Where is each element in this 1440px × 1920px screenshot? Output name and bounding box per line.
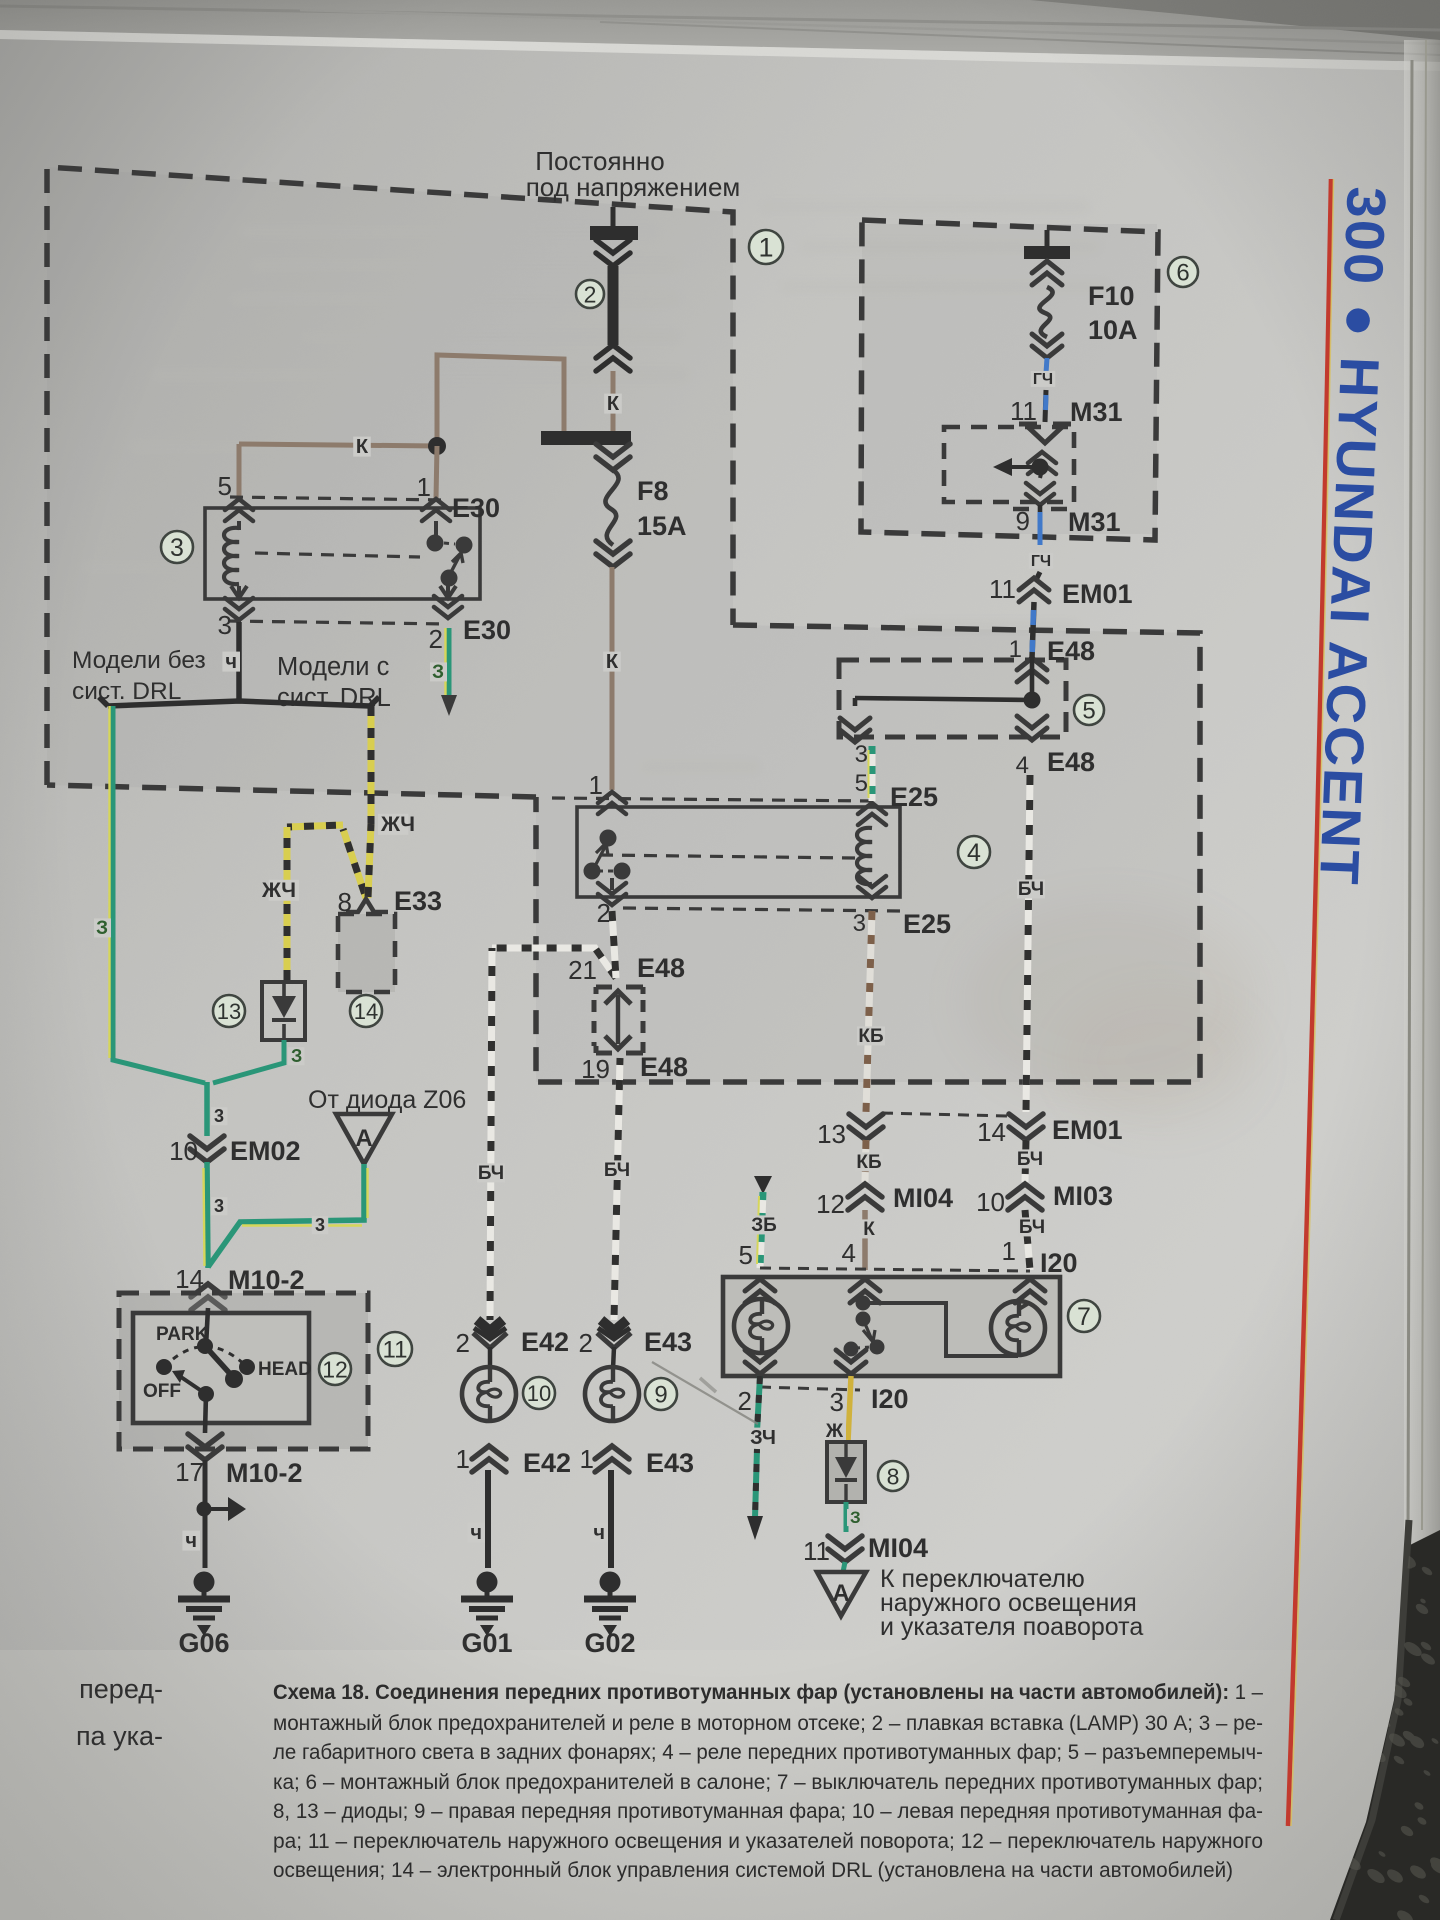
svg-text:5: 5 xyxy=(739,1240,753,1270)
node label circle 6 xyxy=(1168,257,1198,287)
svg-text:БЧ: БЧ xyxy=(604,1160,630,1181)
bleedthrough smudges xyxy=(80,200,1110,774)
wire ZCh from pin 2 xyxy=(757,1376,760,1432)
svg-text:7: 7 xyxy=(1077,1303,1091,1331)
svg-text:Е25: Е25 xyxy=(890,782,938,812)
svg-text:МI03: МI03 xyxy=(1053,1181,1113,1211)
svg-text:Е42: Е42 xyxy=(523,1448,571,1478)
ground G01 xyxy=(477,1572,498,1593)
svg-text:К: К xyxy=(356,436,369,458)
relay 3 box xyxy=(205,508,480,599)
jumper connector box 5 xyxy=(839,660,1066,737)
svg-text:Е48: Е48 xyxy=(1047,636,1095,666)
svg-text:Е25: Е25 xyxy=(903,909,951,939)
svg-text:Е48: Е48 xyxy=(637,953,685,983)
svg-text:6: 6 xyxy=(1176,260,1189,287)
svg-text:5: 5 xyxy=(1082,698,1095,725)
main feed wire xyxy=(608,266,619,345)
wire K (brown) from feed to junction bar xyxy=(611,371,616,431)
wire K loop to relay 3 xyxy=(437,355,564,446)
svg-text:К: К xyxy=(607,393,620,415)
svg-text:Модели с: Модели с xyxy=(277,653,390,681)
switch wire/contacts xyxy=(206,1308,208,1346)
svg-text:13: 13 xyxy=(817,1119,846,1149)
svg-text:М10-2: М10-2 xyxy=(226,1458,303,1488)
svg-text:БЧ: БЧ xyxy=(1019,1217,1045,1238)
fusible link feed in box 6 xyxy=(1045,230,1050,248)
connector MI04 pin 11 xyxy=(828,1536,862,1562)
node label circle 5 xyxy=(1074,695,1104,725)
connector E42 pin 1 xyxy=(472,1446,506,1472)
svg-text:па ука-: па ука- xyxy=(76,1721,163,1751)
svg-text:МI04: МI04 xyxy=(868,1533,928,1563)
svg-text:3: 3 xyxy=(214,1196,224,1216)
wire KB striped xyxy=(866,911,872,1112)
middle connector box outline xyxy=(536,625,1200,1082)
svg-text:3: 3 xyxy=(170,534,184,562)
fuse box 6 (cabin) xyxy=(862,224,1157,534)
svg-text:ч: ч xyxy=(470,1522,482,1544)
svg-text:З: З xyxy=(432,662,444,683)
svg-text:3: 3 xyxy=(853,910,866,937)
ground G02 xyxy=(600,1572,621,1593)
wire ch (black) from relay 3 pin 3 xyxy=(236,622,242,700)
svg-text:От диода Z06: От диода Z06 xyxy=(308,1086,466,1114)
relay 3 coil xyxy=(225,499,253,521)
junction bar xyxy=(541,431,631,445)
wire K to I20 pin4 xyxy=(862,1210,868,1270)
svg-text:14: 14 xyxy=(354,999,378,1024)
red margin rule xyxy=(1288,179,1331,1826)
svg-text:М31: М31 xyxy=(1070,397,1123,427)
svg-text:КБ: КБ xyxy=(856,1152,881,1173)
svg-text:сист. DRL: сист. DRL xyxy=(72,678,181,705)
relay 4 pin rows xyxy=(552,798,874,801)
svg-text:G06: G06 xyxy=(178,1628,229,1658)
wire to relay 3 pin 1 xyxy=(436,446,437,499)
svg-text:17: 17 xyxy=(175,1457,204,1487)
connector EM02 pin 10 xyxy=(190,1136,224,1162)
node label circle 14 xyxy=(350,995,382,1027)
svg-text:Схема 18. Соединения передних: Схема 18. Соединения передних противотум… xyxy=(273,1680,1263,1704)
switch contacts xyxy=(856,1296,871,1311)
svg-text:Е48: Е48 xyxy=(640,1052,688,1082)
svg-text:ЕМ02: ЕМ02 xyxy=(230,1136,301,1166)
top table edge band xyxy=(0,0,1440,62)
svg-text:3: 3 xyxy=(218,610,232,640)
svg-text:ЖЧ: ЖЧ xyxy=(380,813,415,836)
wire Z from triangle A xyxy=(208,1164,364,1267)
svg-text:ч: ч xyxy=(185,1530,197,1552)
svg-text:4: 4 xyxy=(967,839,981,867)
svg-text:14: 14 xyxy=(977,1117,1006,1147)
svg-text:КБ: КБ xyxy=(858,1026,883,1047)
svg-text:1: 1 xyxy=(758,233,773,263)
svg-text:4: 4 xyxy=(1016,752,1029,779)
svg-text:Е30: Е30 xyxy=(463,615,511,645)
svg-text:1: 1 xyxy=(580,1444,594,1474)
jumper wire with junction xyxy=(1030,658,1035,700)
svg-text:ЗБ: ЗБ xyxy=(751,1215,777,1236)
svg-text:освещения; 14 – электронный: освещения; 14 – электронный блок управле… xyxy=(273,1858,1233,1882)
node label circle 4 xyxy=(958,836,990,868)
node label circle 1 xyxy=(749,230,783,264)
connector E25 pin5 / jumper pin3 xyxy=(840,718,870,742)
svg-text:3: 3 xyxy=(214,1106,224,1126)
relay 3 switch contacts xyxy=(422,499,450,521)
svg-text:ле габаритного света в задних: ле габаритного света в задних фонарях; 4… xyxy=(273,1740,1263,1764)
diode 8 box xyxy=(827,1442,865,1502)
svg-text:БЧ: БЧ xyxy=(478,1163,504,1184)
connector EM01 pins 13/14 xyxy=(849,1114,883,1140)
wire ch to ground G06 xyxy=(203,1460,208,1568)
light switch inner box 12 xyxy=(133,1313,309,1423)
svg-text:F8: F8 xyxy=(637,476,669,506)
svg-text:Е30: Е30 xyxy=(452,493,500,523)
wire Z (green) from E30 pin 2 xyxy=(447,628,452,697)
svg-text:БЧ: БЧ xyxy=(1017,1149,1043,1170)
svg-text:11: 11 xyxy=(803,1536,830,1566)
svg-text:HEAD: HEAD xyxy=(258,1359,312,1380)
svg-text:А: А xyxy=(355,1125,372,1152)
fuse F8 15A xyxy=(596,444,630,470)
svg-text:2: 2 xyxy=(584,281,597,307)
fog lamp 9 xyxy=(585,1367,639,1421)
svg-text:под напряжением: под напряжением xyxy=(526,172,741,202)
svg-text:ГЧ: ГЧ xyxy=(1031,553,1051,570)
wire Z below diode 13 xyxy=(213,1040,284,1083)
fog lamp 10 xyxy=(462,1367,516,1421)
wire GCh striped to E48 xyxy=(1032,602,1034,658)
svg-text:G01: G01 xyxy=(461,1628,512,1658)
svg-text:3: 3 xyxy=(315,1215,325,1235)
wire Z (green/yellow) no-DRL branch xyxy=(113,706,205,1083)
junction node xyxy=(428,437,446,455)
svg-text:ЕМ01: ЕМ01 xyxy=(1052,1115,1123,1145)
wire ch to ground G02 xyxy=(608,1470,614,1568)
svg-text:5: 5 xyxy=(855,770,868,797)
svg-text:9: 9 xyxy=(654,1382,667,1409)
svg-text:OFF: OFF xyxy=(143,1381,181,1402)
svg-text:ЗЧ: ЗЧ xyxy=(750,1427,776,1449)
wire ZB with off-page arrow xyxy=(754,1176,772,1194)
DRL control unit box 14 xyxy=(338,914,395,992)
svg-text:Е43: Е43 xyxy=(644,1327,692,1357)
light switch outer box 11 xyxy=(119,1293,368,1449)
relay 4 pin 2 xyxy=(610,878,614,890)
lamp (left, illumination) xyxy=(734,1299,788,1353)
svg-text:11: 11 xyxy=(383,1337,408,1364)
svg-text:G02: G02 xyxy=(584,1628,635,1658)
right page fore-edge xyxy=(1404,40,1440,1920)
fuse F10 10A xyxy=(1032,261,1062,285)
svg-text:2: 2 xyxy=(579,1328,593,1358)
svg-text:21: 21 xyxy=(568,955,597,985)
connector E33 pin 8 xyxy=(346,899,388,912)
svg-text:1: 1 xyxy=(589,770,603,800)
svg-text:Е42: Е42 xyxy=(521,1327,569,1357)
off-page triangle A xyxy=(336,1114,392,1164)
svg-text:ра; 11 – переключатель наруж: ра; 11 – переключатель наружного освещен… xyxy=(273,1829,1263,1853)
wire K to relay 4 xyxy=(610,567,615,790)
svg-text:и указателя поаворота: и указателя поаворота xyxy=(880,1613,1143,1641)
svg-text:З: З xyxy=(291,1046,302,1066)
svg-text:11: 11 xyxy=(989,574,1016,604)
svg-text:1: 1 xyxy=(417,472,431,502)
connector M31 pin 9 xyxy=(1013,507,1067,512)
fusible link 2 (LAMP 30A) xyxy=(611,207,616,227)
photo scratch xyxy=(652,1362,758,1424)
wire BCh branch to E42 xyxy=(492,948,616,978)
svg-text:1: 1 xyxy=(1009,636,1022,663)
svg-text:5: 5 xyxy=(218,471,232,501)
I20 pin row top xyxy=(760,1268,1030,1271)
wire BCh from relay 4 pin 2 to E43 xyxy=(614,1058,620,1320)
svg-text:ГЧ: ГЧ xyxy=(1033,371,1053,388)
node label circle 2 xyxy=(576,280,604,308)
svg-text:10: 10 xyxy=(527,1381,551,1406)
stain xyxy=(960,900,1260,1100)
svg-text:ЕМ01: ЕМ01 xyxy=(1062,579,1133,609)
off-page triangle A (to light switch) xyxy=(817,1572,866,1616)
relay 3 pin rows (dashed) xyxy=(230,497,445,500)
svg-text:МI04: МI04 xyxy=(893,1183,953,1213)
svg-text:ч: ч xyxy=(225,651,237,673)
svg-text:1: 1 xyxy=(456,1444,470,1474)
wire GCh (blue) xyxy=(1046,358,1047,373)
svg-text:ЖЧ: ЖЧ xyxy=(261,879,296,902)
svg-text:Ж: Ж xyxy=(825,1421,844,1442)
connector M10-2 pin 17 xyxy=(188,1434,222,1460)
lamp (right, indicator) xyxy=(991,1301,1045,1355)
connector E43 pin 1 xyxy=(595,1446,629,1472)
svg-text:М31: М31 xyxy=(1068,507,1121,537)
svg-text:2: 2 xyxy=(456,1328,470,1358)
node label circle 10 xyxy=(523,1377,555,1409)
svg-text:19: 19 xyxy=(581,1054,610,1084)
node label circle 9 xyxy=(645,1378,677,1410)
svg-text:2: 2 xyxy=(738,1386,752,1416)
wire Zh from pin 3 to diode 8 xyxy=(848,1376,851,1442)
jumper box in box 6 xyxy=(944,427,1074,502)
wire Z below diode 8 xyxy=(844,1502,849,1532)
svg-text:1: 1 xyxy=(1002,1236,1016,1266)
svg-text:12: 12 xyxy=(322,1356,348,1382)
svg-text:Е43: Е43 xyxy=(646,1448,694,1478)
connector MI03 pin 10 xyxy=(1008,1184,1042,1210)
relay 4 switch contacts xyxy=(600,830,617,847)
I20 bottom pins xyxy=(745,1350,775,1374)
fuse/relay box 1 outline (engine compartment) xyxy=(47,167,1200,1082)
svg-text:К: К xyxy=(606,651,619,673)
node label circle 7 xyxy=(1068,1300,1100,1332)
svg-text:А: А xyxy=(832,1580,849,1607)
node label circle 11 xyxy=(378,1332,412,1366)
svg-text:F10: F10 xyxy=(1088,281,1135,311)
svg-text:8: 8 xyxy=(887,1463,900,1489)
node label circle 3 xyxy=(161,531,193,563)
wire ch to ground G01 xyxy=(485,1470,491,1568)
svg-text:3: 3 xyxy=(830,1387,844,1417)
svg-text:9: 9 xyxy=(1016,506,1030,536)
svg-text:Е48: Е48 xyxy=(1047,747,1095,777)
wire BCh to I20 pin1 xyxy=(1025,1210,1030,1270)
fog switch box 7 xyxy=(723,1277,1060,1376)
node label circle 13 xyxy=(213,995,245,1027)
svg-text:13: 13 xyxy=(217,999,241,1024)
svg-text:З: З xyxy=(850,1508,861,1527)
svg-text:I20: I20 xyxy=(871,1384,909,1414)
svg-text:15А: 15А xyxy=(637,511,687,541)
svg-text:10А: 10А xyxy=(1088,315,1138,345)
connector EM01 pin 11 xyxy=(1036,572,1040,580)
svg-text:I20: I20 xyxy=(1040,1248,1078,1278)
ground G06 xyxy=(194,1572,215,1593)
svg-text:3: 3 xyxy=(855,741,868,768)
svg-text:8, 13 – диоды; 9 – правая: 8, 13 – диоды; 9 – правая передняя проти… xyxy=(273,1799,1263,1823)
DRL split node xyxy=(108,701,370,706)
relay 4 coil xyxy=(857,828,872,884)
svg-text:Е33: Е33 xyxy=(394,886,442,916)
connector MI04 pin 12 xyxy=(848,1184,882,1210)
svg-text:2: 2 xyxy=(429,624,443,654)
node label circle 8 xyxy=(878,1461,908,1491)
wire BCh striped to EM01 xyxy=(1026,775,1030,1112)
svg-text:Модели без: Модели без xyxy=(72,647,206,674)
svg-text:З: З xyxy=(96,918,108,939)
node label circle 12 xyxy=(319,1353,351,1385)
svg-text:К: К xyxy=(863,1219,875,1240)
diode 13 box xyxy=(262,982,305,1040)
svg-text:12: 12 xyxy=(816,1189,845,1219)
svg-text:10: 10 xyxy=(976,1187,1005,1217)
svg-text:перед-: перед- xyxy=(79,1674,163,1704)
svg-text:10: 10 xyxy=(169,1136,198,1166)
svg-text:ч: ч xyxy=(593,1522,605,1544)
svg-text:ка; 6 – монтажный блок предо: ка; 6 – монтажный блок предохранителей в… xyxy=(273,1770,1263,1794)
wire ZhCh (yellow/black) DRL branch xyxy=(368,706,375,824)
svg-text:БЧ: БЧ xyxy=(1018,879,1044,900)
svg-text:4: 4 xyxy=(842,1238,856,1268)
wire Z merged trunk xyxy=(204,1082,210,1136)
svg-text:монтажный блок предохранителей: монтажный блок предохранителей и реле в … xyxy=(273,1711,1263,1735)
relay 4 box xyxy=(577,807,900,897)
